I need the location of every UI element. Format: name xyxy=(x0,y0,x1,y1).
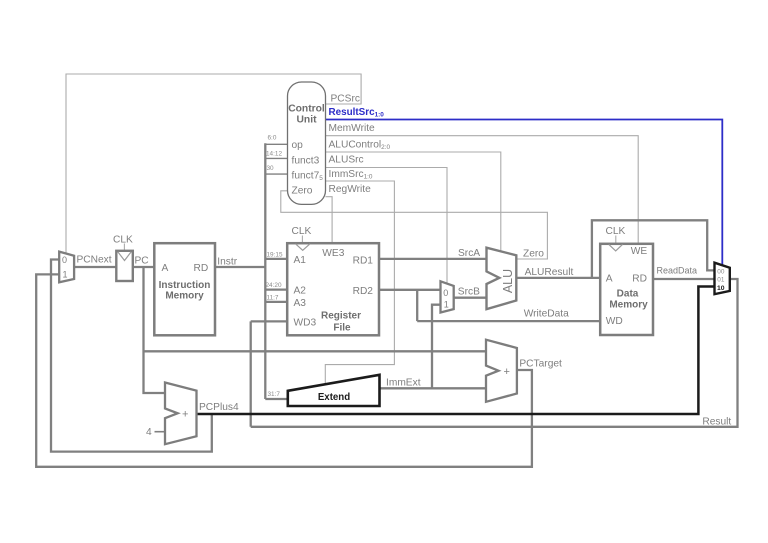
svg-text:Memory: Memory xyxy=(609,300,648,311)
svg-text:op: op xyxy=(292,140,304,151)
svg-text:Memory: Memory xyxy=(165,291,204,302)
svg-text:19:15: 19:15 xyxy=(267,251,283,258)
wire RD1 to SrcA xyxy=(379,258,487,260)
svg-text:10: 10 xyxy=(717,285,725,292)
wire CLK line PC register xyxy=(123,244,125,251)
svg-text:RD1: RD1 xyxy=(353,255,374,266)
svg-text:01: 01 xyxy=(717,277,725,284)
wire ImmSrc (CU to Extend select) xyxy=(325,181,394,384)
svg-text:Data: Data xyxy=(617,289,639,300)
wire ReadData (Data Memory RD to Result mux input 01) xyxy=(653,278,715,280)
wire ALUSrc (CU to SrcB mux select) xyxy=(326,168,448,284)
svg-text:funct3: funct3 xyxy=(292,155,320,166)
ALU U_ALU xyxy=(487,248,517,310)
svg-text:WD: WD xyxy=(606,316,623,327)
svg-text:Extend: Extend xyxy=(318,392,350,403)
wire Result feedback vertical to WD3 xyxy=(250,321,252,426)
wire MemWrite (CU to Data Memory WE) xyxy=(326,136,639,244)
wire Zero (ALU to CU) xyxy=(281,191,548,259)
svg-text:ReadData: ReadData xyxy=(657,265,698,275)
wire funct3 stub to CU xyxy=(265,157,287,159)
wire Instr bus vertical xyxy=(264,143,266,399)
svg-text:Result: Result xyxy=(702,416,731,427)
mux PCNext xyxy=(59,252,74,283)
svg-text:CLK: CLK xyxy=(606,226,626,237)
svg-text:+: + xyxy=(182,409,188,421)
svg-text:A: A xyxy=(606,273,613,284)
wire ResultSrc (blue, CU to Result mux select) xyxy=(326,120,723,266)
svg-text:funct75: funct75 xyxy=(292,170,324,182)
svg-text:6:0: 6:0 xyxy=(268,135,277,142)
register PC xyxy=(116,251,133,281)
svg-text:11:7: 11:7 xyxy=(267,295,279,302)
svg-text:CLK: CLK xyxy=(292,226,312,237)
svg-text:1: 1 xyxy=(444,299,449,309)
wire op stub to CU xyxy=(265,143,287,145)
svg-text:File: File xyxy=(333,323,351,334)
clock chevron Register File xyxy=(296,244,311,251)
svg-text:1: 1 xyxy=(63,270,68,280)
wire CLK line Register File xyxy=(301,236,303,244)
svg-text:0: 0 xyxy=(62,255,67,265)
wire funct7 stub to CU xyxy=(265,173,287,175)
svg-text:RD: RD xyxy=(632,273,647,284)
svg-text:SrcA: SrcA xyxy=(458,248,480,259)
svg-text:WE3: WE3 xyxy=(322,248,344,259)
svg-text:Instruction: Instruction xyxy=(159,280,211,291)
svg-text:A2: A2 xyxy=(294,285,307,296)
wire A3 stub (Instr 11:7) xyxy=(265,301,287,303)
svg-text:A: A xyxy=(162,263,169,274)
svg-text:RegWrite: RegWrite xyxy=(329,184,372,195)
svg-text:MemWrite: MemWrite xyxy=(329,123,376,134)
wire CLK line Data Memory xyxy=(615,236,617,244)
mux SrcB xyxy=(441,281,454,312)
wire SrcB (mux to ALU) xyxy=(454,297,487,299)
wire PC (PC register to Instruction Memory A) xyxy=(133,266,155,268)
svg-text:PCTarget: PCTarget xyxy=(519,358,562,369)
adder PCTarget xyxy=(486,340,517,402)
svg-text:Zero: Zero xyxy=(292,185,313,196)
wire PCSrc select (CU to PCNext mux) xyxy=(66,74,361,254)
svg-text:+: + xyxy=(504,366,510,378)
register file U_RF xyxy=(287,243,379,335)
svg-text:RD2: RD2 xyxy=(353,286,374,297)
data memory U_DM xyxy=(600,244,653,335)
mux Result (highlighted) xyxy=(715,263,730,295)
svg-text:PCSrc: PCSrc xyxy=(331,93,360,104)
instruction memory U_IM xyxy=(154,243,215,335)
wire 4 constant stub xyxy=(155,431,166,433)
wire ALUResult bypass over Data Memory to Result mux input 00 xyxy=(592,220,715,278)
adder PCPlus4 xyxy=(165,383,197,445)
clock chevron Data Memory xyxy=(609,244,623,251)
wire PCNext (mux to PC register) xyxy=(74,266,117,268)
svg-text:CLK: CLK xyxy=(113,235,133,246)
wire A2 stub (Instr 24:20) xyxy=(265,288,287,290)
wire ImmExt branch up to SrcB mux input 1 xyxy=(432,305,441,389)
svg-text:ImmExt: ImmExt xyxy=(386,377,421,388)
svg-text:A3: A3 xyxy=(294,298,307,309)
svg-text:A1: A1 xyxy=(294,255,307,266)
wire RD2 branch down to WriteData xyxy=(416,290,418,321)
wire PC tap down to PCPlus4 adder xyxy=(144,267,166,393)
svg-text:WD3: WD3 xyxy=(294,317,317,328)
svg-text:Unit: Unit xyxy=(296,115,317,126)
wire Result (mux output, right side down and left) xyxy=(251,279,738,427)
wire RegWrite (CU to Register File WE3) xyxy=(326,197,333,244)
wire PC to PCTarget adder top input xyxy=(144,350,487,352)
extend unit U_EXT (highlighted) xyxy=(288,375,380,406)
wire ALUControl (CU to ALU) xyxy=(326,152,501,252)
svg-text:00: 00 xyxy=(717,268,725,275)
wire A1 stub (Instr 19:15) xyxy=(265,258,287,260)
wire RD2 to SrcB mux input 0 xyxy=(379,289,441,291)
wire Extend input stub (Instr 31:7) xyxy=(265,398,288,400)
wire WD3 input xyxy=(251,320,288,322)
svg-text:Control: Control xyxy=(288,104,325,115)
wire WriteData to Data Memory WD xyxy=(417,320,600,322)
wire PCPlus4 feedback (branch down, left, up to PCNext mux input 0) xyxy=(51,260,212,452)
svg-text:0: 0 xyxy=(443,288,448,298)
svg-text:ALUSrc: ALUSrc xyxy=(329,154,364,165)
wire PCTarget output (down, left, up to PCNext mux input 1) xyxy=(36,274,532,466)
wire PCPlus4 to Result mux input 10 (black highlighted) xyxy=(197,287,715,415)
svg-text:PCPlus4: PCPlus4 xyxy=(199,402,239,413)
wire ImmExt (Extend to PCTarget adder) xyxy=(380,387,487,389)
svg-text:30: 30 xyxy=(267,165,275,172)
svg-text:RD: RD xyxy=(194,263,209,274)
svg-text:SrcB: SrcB xyxy=(458,286,480,297)
svg-text:31:7: 31:7 xyxy=(268,391,281,398)
svg-text:14:12: 14:12 xyxy=(266,150,282,157)
svg-text:24:20: 24:20 xyxy=(266,282,282,289)
wire Instr (Instruction Memory RD to bus) xyxy=(215,266,265,268)
svg-text:ALU: ALU xyxy=(501,269,515,293)
svg-text:WriteData: WriteData xyxy=(524,308,569,319)
svg-text:Register: Register xyxy=(321,311,361,322)
svg-text:4: 4 xyxy=(146,427,152,438)
svg-text:WE: WE xyxy=(631,246,648,257)
clock chevron PC xyxy=(118,252,131,261)
svg-text:ALUResult: ALUResult xyxy=(525,267,574,278)
svg-text:PCNext: PCNext xyxy=(77,254,112,265)
wire ALUResult (ALU to Data Memory A) xyxy=(516,277,600,279)
svg-text:Instr: Instr xyxy=(217,256,237,267)
control unit U_CU xyxy=(288,82,326,204)
svg-text:Zero: Zero xyxy=(523,248,544,259)
svg-text:PC: PC xyxy=(135,255,149,266)
